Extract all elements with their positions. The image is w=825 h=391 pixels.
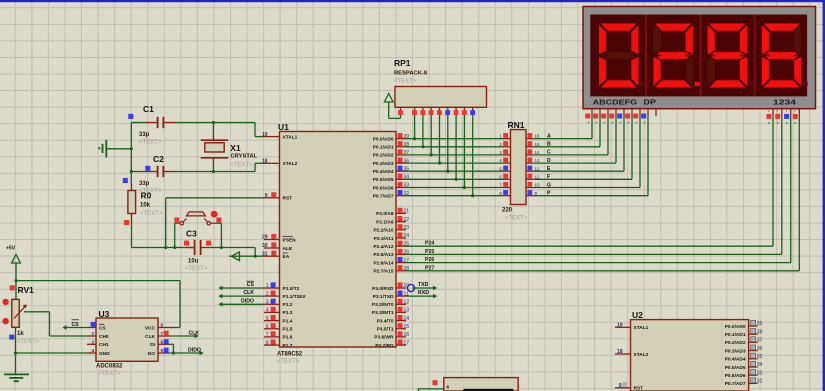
wire RV1 wiper to U3 CH0 xyxy=(24,312,87,336)
svg-text:P: P xyxy=(547,191,551,197)
svg-text:25: 25 xyxy=(404,241,410,247)
svg-text:U3: U3 xyxy=(99,309,110,319)
svg-text:RN1: RN1 xyxy=(508,120,525,130)
U1 pin 17 P3.7 xyxy=(375,340,409,349)
svg-text:DIDO: DIDO xyxy=(188,347,201,353)
svg-text:<TEXT>: <TEXT> xyxy=(394,79,417,85)
U3 pin 2 CH0 xyxy=(87,331,109,340)
svg-text:P0.7/AD7: P0.7/AD7 xyxy=(373,194,394,200)
svg-text:EA: EA xyxy=(283,254,290,260)
svg-text:10k: 10k xyxy=(140,203,151,209)
svg-text:P2.0/A8: P2.0/A8 xyxy=(376,211,394,217)
svg-text:9: 9 xyxy=(619,383,622,389)
display pin D stub xyxy=(609,109,616,125)
svg-text:7: 7 xyxy=(266,332,269,338)
wire button left leg xyxy=(173,223,176,249)
7-seg digit '6' xyxy=(761,23,807,88)
wire display C to RN1 xyxy=(533,116,608,155)
svg-text:5: 5 xyxy=(266,316,269,322)
svg-text:CS: CS xyxy=(99,325,106,331)
mcu U2 body xyxy=(631,320,749,391)
power +5V terminal left xyxy=(6,246,20,281)
U1 pin 21 P2.0 xyxy=(376,208,409,217)
svg-text:CRYSTAL: CRYSTAL xyxy=(231,154,258,160)
svg-text:P0.1/AD1: P0.1/AD1 xyxy=(725,332,746,338)
wire display digit 4 to U1 P2.7 xyxy=(406,116,799,271)
7-seg digit '2' xyxy=(653,23,699,88)
wire display G to RN1 xyxy=(533,116,640,188)
svg-text:38: 38 xyxy=(757,329,763,335)
U1 pin 24 P2.3 xyxy=(374,232,410,241)
wire display A to RN1 xyxy=(533,116,592,139)
potentiometer RV1 xyxy=(12,281,27,328)
U1 pin 15 P3.5 xyxy=(377,323,410,332)
U1 pin 22 P2.1 xyxy=(376,216,409,225)
svg-text:P1.0/T2: P1.0/T2 xyxy=(283,286,300,292)
svg-text:P2.1/A9: P2.1/A9 xyxy=(376,219,394,225)
svg-text:ᴀ: ᴀ xyxy=(604,120,606,125)
wire CLK to U1 P1.1 xyxy=(218,294,264,299)
svg-text:E: E xyxy=(547,166,551,172)
U1 pin 27 P2.6 xyxy=(373,257,409,266)
svg-text:32: 32 xyxy=(757,379,763,385)
U1 pin 33 P0.6 xyxy=(373,182,410,191)
RN1 pin 6 xyxy=(499,174,510,180)
svg-text:P24: P24 xyxy=(425,241,434,247)
node square button right xyxy=(216,217,221,222)
svg-text:P0.2/AD2: P0.2/AD2 xyxy=(373,153,394,159)
svg-text:2: 2 xyxy=(499,142,502,147)
U3 pin 7 CLK xyxy=(145,331,169,340)
RN1 pin 1 xyxy=(499,133,510,139)
svg-text:28: 28 xyxy=(404,266,410,272)
capacitor C1 xyxy=(131,117,192,128)
U2 pin 32 P0.7 xyxy=(725,378,763,387)
display pin NC stub xyxy=(655,109,657,116)
U2 pin 36 P0.3 xyxy=(725,345,763,354)
wire RP1 pin 7 to bus row 6 xyxy=(455,115,458,181)
svg-text:23: 23 xyxy=(404,225,410,231)
crystal X1 xyxy=(201,121,229,173)
wire U1 P0.1 to RN1 pin 2 xyxy=(406,146,503,148)
svg-text:P3.2/INT0: P3.2/INT0 xyxy=(372,302,394,308)
svg-text:P0.6/AD6: P0.6/AD6 xyxy=(725,373,746,379)
RP1 pin 3 stub xyxy=(420,107,425,115)
7-seg digit '0' xyxy=(598,23,644,88)
svg-text:10u: 10u xyxy=(188,259,199,265)
svg-text:8: 8 xyxy=(161,323,164,328)
svg-text:1: 1 xyxy=(266,283,269,289)
U2 pin 37 P0.2 xyxy=(725,337,763,346)
svg-text:CLK: CLK xyxy=(189,331,200,337)
wire display D to RN1 xyxy=(533,116,616,163)
svg-text:3: 3 xyxy=(91,339,94,344)
svg-text:P0.3/AD3: P0.3/AD3 xyxy=(725,348,746,354)
svg-text:220: 220 xyxy=(502,208,513,214)
wire RP1 pin1 to +5V xyxy=(389,115,401,118)
svg-text:5: 5 xyxy=(499,166,502,171)
probe marker on P3.0 xyxy=(407,284,414,291)
wire DI-DO tie xyxy=(169,344,175,354)
svg-text:35: 35 xyxy=(757,354,763,360)
svg-text:DO: DO xyxy=(148,351,155,357)
node square RV1 bottom xyxy=(9,335,14,340)
svg-text:24: 24 xyxy=(404,233,410,239)
node square U3 DO xyxy=(164,348,169,353)
svg-text:P1.3: P1.3 xyxy=(283,310,293,316)
U1 pin 19 XTAL1 xyxy=(262,132,298,141)
wire display digit 2 to U1 P2.5 xyxy=(406,116,782,255)
svg-text:4: 4 xyxy=(91,348,94,353)
svg-text:P3.4/T0: P3.4/T0 xyxy=(377,318,394,324)
RV1 state dot lower xyxy=(2,318,8,324)
RN1 pin 15 xyxy=(526,141,540,147)
wire C3 to EA xyxy=(229,248,264,258)
wire U3 GND to ground xyxy=(16,352,88,354)
svg-text:PSEN: PSEN xyxy=(283,237,297,243)
node square C3 left xyxy=(184,241,189,246)
wire CS to U1 P1.0 xyxy=(218,286,264,291)
U1 pin 6 P1.5 xyxy=(264,323,293,332)
svg-text:CH1: CH1 xyxy=(99,342,109,348)
svg-text:19: 19 xyxy=(617,322,623,328)
wire display E to RN1 xyxy=(533,116,624,171)
wire RP1 pin 8 to bus row 7 xyxy=(463,115,466,189)
ground terminal left of C1 xyxy=(98,140,131,158)
wire C2 to XTAL2 xyxy=(192,163,264,171)
wire CLK from U3 xyxy=(169,334,199,339)
display pin G stub xyxy=(633,109,640,125)
svg-text:9: 9 xyxy=(535,191,538,196)
svg-text:<TEXT>: <TEXT> xyxy=(505,216,528,222)
power terminal at EA xyxy=(232,252,240,261)
svg-text:P0.4/AD4: P0.4/AD4 xyxy=(725,357,746,363)
svg-text:15: 15 xyxy=(535,142,541,147)
U1 pin 18 XTAL2 xyxy=(262,159,298,168)
RN1 pin 10 xyxy=(526,182,540,188)
wire RP1 pin 3 to bus row 2 xyxy=(421,115,424,148)
U2 pin 34 P0.5 xyxy=(725,361,763,370)
node square below R0 xyxy=(124,220,129,225)
wire U1 P0.6 to RN1 pin 7 xyxy=(406,187,503,189)
RN1 pin 8 xyxy=(499,190,510,196)
7-seg digit '9' xyxy=(707,23,753,88)
svg-text:33p: 33p xyxy=(139,181,150,187)
U2 pin 38 P0.1 xyxy=(725,329,763,338)
U3 pin 3 CH1 xyxy=(87,339,109,348)
U2 pin 19 XTAL1 xyxy=(615,322,649,331)
display digit pin 2 stub xyxy=(775,109,782,125)
wire display B to RN1 xyxy=(533,116,600,147)
U1 pin 14 P3.4 xyxy=(377,315,410,324)
svg-text:XTAL1: XTAL1 xyxy=(634,325,649,331)
U1 pin 7 P1.6 xyxy=(264,331,293,340)
U1 pin 23 P2.2 xyxy=(373,224,409,233)
svg-text:ᴀ: ᴀ xyxy=(588,120,590,125)
svg-text:8: 8 xyxy=(266,340,269,346)
RN1 pin 13 xyxy=(526,158,540,164)
wire display digit 1 to U1 P2.4 xyxy=(406,116,773,247)
mcu U1 body xyxy=(280,132,397,348)
svg-text:P0.0/AD0: P0.0/AD0 xyxy=(373,136,394,142)
RN1 pin 11 xyxy=(526,174,540,180)
U1 pin 9 RST xyxy=(264,192,292,201)
svg-text:P2.4/A12: P2.4/A12 xyxy=(373,244,393,250)
svg-text:P3.7/RD: P3.7/RD xyxy=(375,343,394,349)
U1 pin 5 P1.4 xyxy=(264,315,293,324)
wire U1 P0.7 to RN1 pin 8 xyxy=(406,195,503,197)
svg-text:4: 4 xyxy=(499,158,502,163)
svg-text:A: A xyxy=(547,133,551,139)
svg-text:5: 5 xyxy=(161,348,164,353)
svg-text:12: 12 xyxy=(404,300,410,306)
U2 pin 18 XTAL2 xyxy=(615,349,649,358)
wire U1 P0.3 to RN1 pin 4 xyxy=(406,162,503,164)
svg-text:16: 16 xyxy=(535,134,541,139)
svg-text:P3.5/T1: P3.5/T1 xyxy=(377,327,394,333)
RP1 pin 5 stub xyxy=(437,107,442,115)
svg-text:P1.7: P1.7 xyxy=(283,343,293,349)
wire U1 P0.5 to RN1 pin 6 xyxy=(406,178,503,180)
svg-text:33p: 33p xyxy=(139,132,150,138)
svg-text:P0.0/AD0: P0.0/AD0 xyxy=(725,324,746,330)
svg-text:1234: 1234 xyxy=(773,99,796,106)
svg-text:P0.3/AD3: P0.3/AD3 xyxy=(373,161,394,167)
U1 pin 31 EA xyxy=(262,251,290,260)
svg-text:27: 27 xyxy=(404,258,410,264)
U2 pin 33 P0.6 xyxy=(725,370,763,379)
svg-text:ᴀ: ᴀ xyxy=(612,120,614,125)
wire display DP to RN1 xyxy=(533,116,648,196)
U1 pin 8 P1.7 xyxy=(264,340,293,349)
svg-text:<TEXT>: <TEXT> xyxy=(17,339,40,345)
U3 pin 1 CS xyxy=(87,323,106,332)
overbar CS label xyxy=(247,280,255,282)
U1 pin 32 P0.7 xyxy=(373,190,410,199)
svg-text:R0: R0 xyxy=(141,191,152,201)
display pin C stub xyxy=(601,109,608,125)
svg-text:CH0: CH0 xyxy=(99,334,109,340)
svg-text:DIDO: DIDO xyxy=(241,298,254,304)
svg-text:C2: C2 xyxy=(153,154,164,164)
U1 pin 28 P2.7 xyxy=(373,265,409,274)
U1 pin 36 P0.3 xyxy=(373,158,410,167)
wire TXD xyxy=(412,286,437,291)
U1 pin 16 P3.6 xyxy=(374,331,409,340)
U1 pin 4 P1.3 xyxy=(264,307,293,316)
RP1 pin 1 stub xyxy=(398,107,403,115)
RN1 pin 7 xyxy=(499,182,510,188)
U3 pin 6 DI xyxy=(150,339,169,348)
svg-text:XTAL1: XTAL1 xyxy=(283,134,298,140)
svg-text:13: 13 xyxy=(535,158,541,163)
svg-text:VCC: VCC xyxy=(145,325,156,331)
svg-text:P1.5: P1.5 xyxy=(283,327,293,333)
U1 pin 29 PSEN xyxy=(262,234,296,243)
RP1 pin 2 stub xyxy=(412,107,417,115)
svg-text:CLK: CLK xyxy=(243,290,254,296)
wire gnd rail xyxy=(130,123,133,185)
display digit pin 3 stub xyxy=(784,109,791,125)
svg-text:<TEXT>: <TEXT> xyxy=(139,140,162,146)
svg-text:CS: CS xyxy=(247,282,255,288)
svg-text:18: 18 xyxy=(617,349,623,355)
node square lcd pin xyxy=(433,380,438,385)
svg-text:14: 14 xyxy=(404,316,410,322)
svg-text:RST: RST xyxy=(634,386,644,391)
node square C2 xyxy=(145,166,150,171)
RN1 pin 14 xyxy=(526,149,540,155)
U1 pin 3 P1.2 xyxy=(264,299,293,308)
svg-text:P27: P27 xyxy=(425,265,434,271)
node square U3 DI xyxy=(164,339,169,344)
U3 pin 5 DO xyxy=(148,348,169,357)
svg-text:X1: X1 xyxy=(230,143,241,153)
svg-text:<TEXT>: <TEXT> xyxy=(140,211,163,217)
resistor R0 xyxy=(128,184,136,220)
svg-text:14: 14 xyxy=(535,150,541,155)
svg-text:P2.6/A14: P2.6/A14 xyxy=(373,260,393,266)
svg-text:12: 12 xyxy=(535,166,541,171)
4-digit 7-segment display frame xyxy=(583,7,816,109)
button state dot xyxy=(211,211,218,218)
RN1 pin 9 xyxy=(526,190,538,196)
display pin A stub xyxy=(585,109,592,125)
svg-text:30: 30 xyxy=(262,243,268,249)
svg-text:6: 6 xyxy=(161,339,164,344)
node square above R0 xyxy=(123,178,128,183)
svg-text:P0.7/AD7: P0.7/AD7 xyxy=(725,381,746,387)
wire RST net xyxy=(164,198,264,249)
svg-text:D: D xyxy=(547,158,551,164)
svg-text:RST: RST xyxy=(283,196,293,202)
svg-text:B: B xyxy=(547,142,551,148)
svg-text:P1.1/T2EX: P1.1/T2EX xyxy=(283,294,307,300)
node square RV1 xyxy=(10,285,15,290)
wire CS from U3 xyxy=(62,325,87,330)
svg-text:ᴀ: ᴀ xyxy=(644,120,646,125)
svg-text:U2: U2 xyxy=(632,310,643,320)
RV1 state dot upper xyxy=(2,299,8,305)
wire display F to RN1 xyxy=(533,116,632,179)
U1 pin 34 P0.5 xyxy=(373,174,410,183)
svg-text:26: 26 xyxy=(404,250,410,256)
svg-text:2: 2 xyxy=(266,291,269,297)
svg-text:33: 33 xyxy=(757,370,763,376)
power +5V terminal at RP1 xyxy=(384,94,393,119)
svg-text:16: 16 xyxy=(404,332,410,338)
svg-text:P25: P25 xyxy=(425,249,434,255)
RP1 pin 9 stub xyxy=(470,107,475,115)
svg-text:37: 37 xyxy=(757,338,763,344)
svg-text:U1: U1 xyxy=(278,122,289,132)
svg-text:AT89C52: AT89C52 xyxy=(277,352,303,358)
display digit pin 1 stub xyxy=(766,109,773,125)
svg-text:C: C xyxy=(547,150,551,156)
svg-text:ᴀ: ᴀ xyxy=(620,120,622,125)
wire DIDO from U3 xyxy=(169,351,204,356)
wire U1 P0.0 to RN1 pin 1 xyxy=(406,138,503,140)
svg-text:P0.5/AD5: P0.5/AD5 xyxy=(373,177,394,183)
svg-text:6: 6 xyxy=(266,324,269,330)
svg-text:CS: CS xyxy=(72,322,80,328)
svg-text:4: 4 xyxy=(266,308,269,314)
capacitor C3 xyxy=(187,240,256,255)
svg-text:ᴀ: ᴀ xyxy=(636,120,638,125)
svg-text:1k: 1k xyxy=(17,331,24,337)
node square U3 CS xyxy=(91,322,96,327)
svg-text:7: 7 xyxy=(161,331,164,336)
svg-text:7: 7 xyxy=(499,183,502,188)
node square C3 right xyxy=(206,241,211,246)
U1 pin 13 P3.3 xyxy=(372,307,409,316)
svg-text:8: 8 xyxy=(499,191,502,196)
wire C1 to XTAL1 xyxy=(192,123,264,137)
svg-text:RXD: RXD xyxy=(418,290,429,296)
node square U3 CLK xyxy=(164,331,169,336)
wire +5V rail to U3 VCC xyxy=(14,279,180,328)
svg-text:P2.5/A13: P2.5/A13 xyxy=(373,252,393,258)
wire DIDO to U1 P1.2 xyxy=(218,302,264,307)
svg-text:P2.2/A10: P2.2/A10 xyxy=(373,228,393,234)
wire U1 P0.4 to RN1 pin 5 xyxy=(406,170,503,172)
wire to lcd xyxy=(418,389,444,391)
svg-text:ᴀ: ᴀ xyxy=(596,120,598,125)
RP1 pin 8 stub xyxy=(462,107,467,115)
wire RP1 pin 9 to bus row 8 xyxy=(471,115,474,197)
RN1 pin 5 xyxy=(499,166,510,172)
resistor network RN1 body xyxy=(511,130,527,205)
wire RP1 pin 6 to bus row 5 xyxy=(446,115,449,173)
U1 pin 37 P0.2 xyxy=(373,149,410,158)
U1 pin 11 P3.1 xyxy=(373,291,409,300)
svg-text:RV1: RV1 xyxy=(18,285,35,295)
wire RXD xyxy=(406,294,437,299)
svg-text:3: 3 xyxy=(499,150,502,155)
display digit separators xyxy=(646,15,755,97)
ground symbol bottom left xyxy=(4,374,29,381)
svg-text:<TEXT>: <TEXT> xyxy=(231,163,254,169)
svg-text:17: 17 xyxy=(404,340,410,346)
svg-text:P3.0/RXD: P3.0/RXD xyxy=(372,286,394,292)
svg-text:<TEXT>: <TEXT> xyxy=(185,266,208,272)
svg-text:XTAL2: XTAL2 xyxy=(634,352,649,358)
svg-text:9: 9 xyxy=(265,193,268,199)
svg-text:DP: DP xyxy=(644,99,657,106)
svg-text:ADC0832: ADC0832 xyxy=(96,364,123,370)
svg-text:1: 1 xyxy=(499,134,502,139)
svg-text:6: 6 xyxy=(499,174,502,179)
display pin F stub xyxy=(625,109,632,125)
lcd module bottom xyxy=(444,378,518,391)
svg-text:11: 11 xyxy=(535,174,540,179)
display pin E stub xyxy=(617,109,624,125)
svg-text:+5V: +5V xyxy=(6,246,16,252)
U1 pin 10 P3.0 xyxy=(372,282,409,291)
svg-text:<TEXT>: <TEXT> xyxy=(277,359,300,365)
svg-text:ALE: ALE xyxy=(283,246,293,252)
svg-text:C3: C3 xyxy=(186,229,197,239)
svg-text:P3.6/WR: P3.6/WR xyxy=(374,335,394,341)
svg-text:P0.2/AD2: P0.2/AD2 xyxy=(725,340,746,346)
svg-text:34: 34 xyxy=(757,362,763,368)
U3 pin 8 VCC xyxy=(145,323,169,332)
wire RV1 bottom to ground xyxy=(14,327,17,374)
svg-text:P2.7/A15: P2.7/A15 xyxy=(373,269,393,275)
svg-text:RESPACK-8: RESPACK-8 xyxy=(394,71,428,77)
sheet border right xyxy=(823,0,825,391)
U1 pin 38 P0.1 xyxy=(373,141,410,150)
